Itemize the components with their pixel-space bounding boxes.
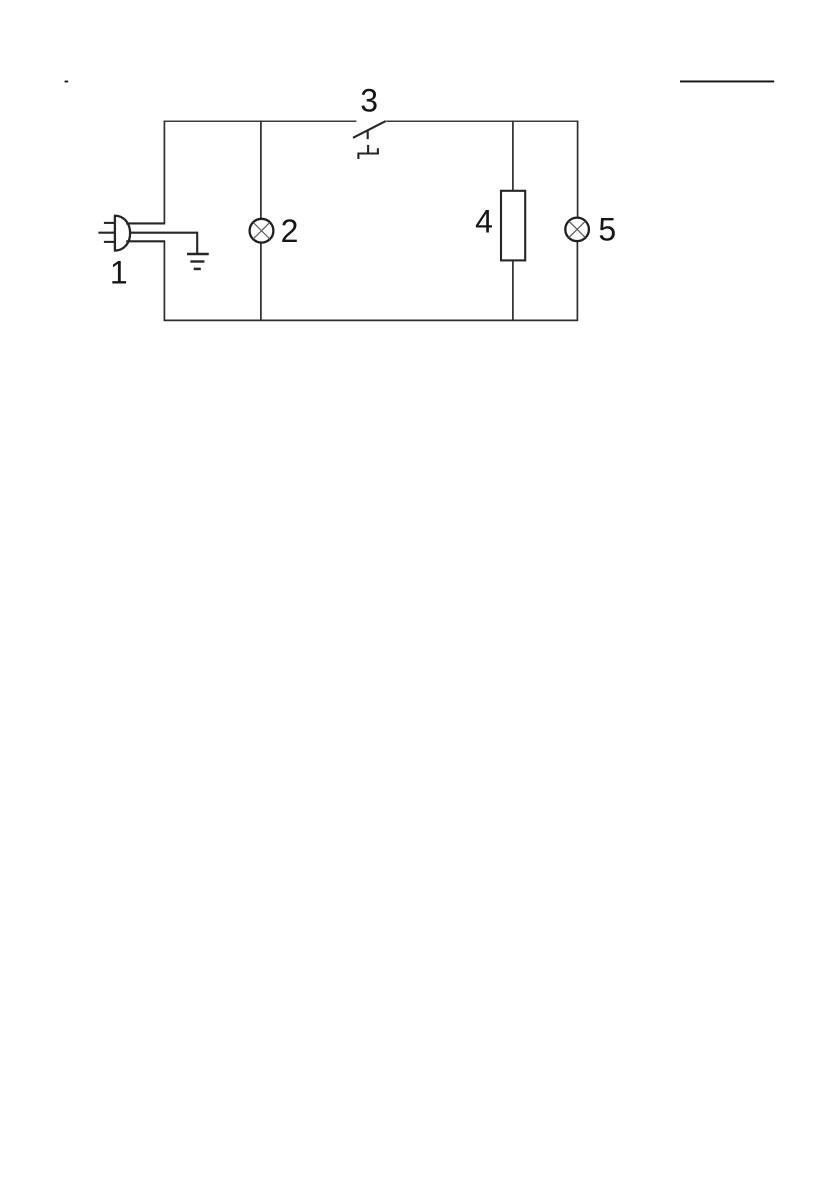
ground xyxy=(187,254,209,269)
wire plug bottom lead xyxy=(126,240,165,242)
wire left upper xyxy=(163,121,165,224)
switch S3 actuator bracket xyxy=(358,148,378,159)
lamp L5 xyxy=(565,218,589,242)
wire earth lead xyxy=(130,233,197,254)
switch S3 blade xyxy=(353,121,386,138)
answer line top-right xyxy=(680,81,774,83)
wire left lower xyxy=(163,241,165,321)
switch S3 actuator stem xyxy=(367,145,369,154)
wire right upper xyxy=(577,121,579,218)
switch S3 tick xyxy=(367,131,369,139)
svg-text:5: 5 xyxy=(598,212,616,248)
svg-text:3: 3 xyxy=(360,83,378,119)
wire lamp2 branch lower xyxy=(260,242,262,321)
wire resistor branch lower xyxy=(512,260,514,321)
plug P1 prong top xyxy=(104,222,116,224)
wire bottom xyxy=(164,319,578,321)
wire top right segment xyxy=(386,120,578,122)
wire resistor branch upper xyxy=(512,121,514,192)
lamp L2 xyxy=(250,219,274,243)
wire lamp2 branch upper xyxy=(260,121,262,220)
wire top left segment xyxy=(164,120,357,122)
svg-text:4: 4 xyxy=(475,204,493,240)
wire plug top lead xyxy=(126,222,165,224)
dash mark top-left xyxy=(65,81,69,83)
plug P1 prong bottom xyxy=(104,241,116,243)
svg-text:1: 1 xyxy=(110,254,128,290)
svg-text:2: 2 xyxy=(281,213,299,249)
plug P1 body xyxy=(115,216,130,251)
plug P1 prong middle xyxy=(98,232,115,234)
resistor R4 xyxy=(501,191,525,261)
wire right lower xyxy=(576,241,578,321)
